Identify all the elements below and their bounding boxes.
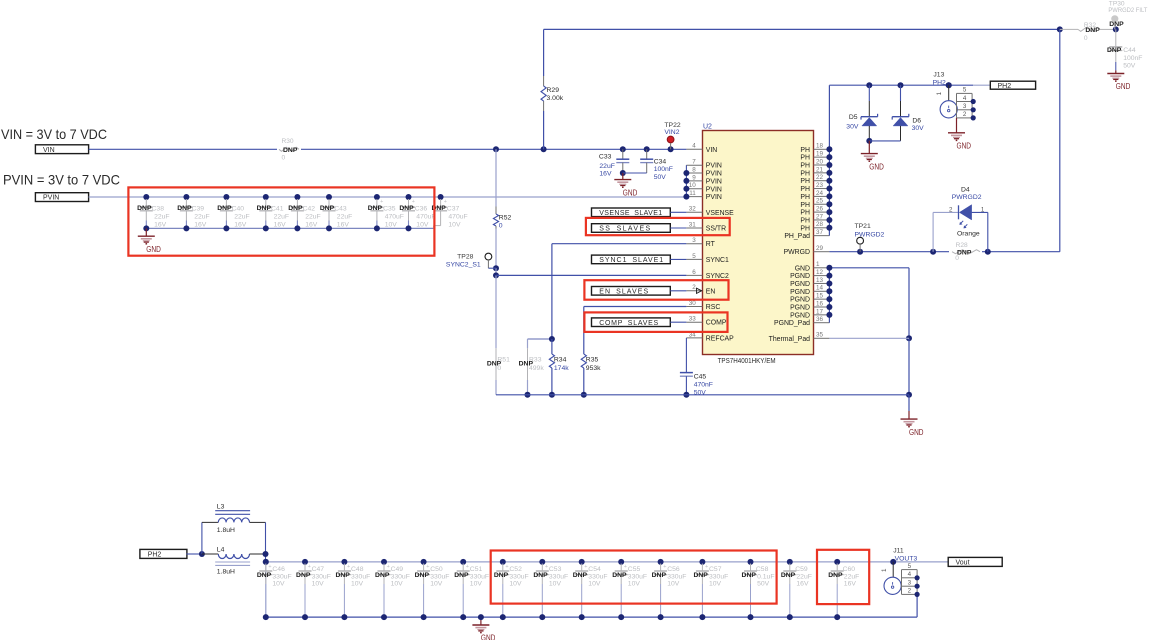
svg-text:PVIN: PVIN bbox=[706, 178, 722, 185]
pin 27 PH bbox=[800, 213, 829, 224]
wire PVIN cap bank ground bus bbox=[146, 221, 440, 229]
svg-text:SS_SLAVES: SS_SLAVES bbox=[599, 226, 650, 233]
svg-text:16V: 16V bbox=[337, 221, 350, 228]
svg-text:12: 12 bbox=[816, 269, 824, 276]
svg-text:10V: 10V bbox=[351, 580, 364, 587]
svg-text:16V: 16V bbox=[844, 580, 857, 587]
svg-text:330uF: 330uF bbox=[549, 573, 568, 580]
pin 33 COMP bbox=[686, 316, 726, 327]
capacitor C60 (DNP) bbox=[828, 559, 859, 620]
svg-text:13: 13 bbox=[816, 277, 824, 284]
svg-text:330uF: 330uF bbox=[628, 573, 647, 580]
svg-text:2: 2 bbox=[949, 207, 953, 214]
svg-text:C52: C52 bbox=[509, 566, 522, 573]
svg-text:C36: C36 bbox=[415, 205, 428, 212]
svg-text:9: 9 bbox=[692, 174, 696, 181]
svg-text:VSENSE_SLAVE1: VSENSE_SLAVE1 bbox=[599, 210, 662, 217]
svg-text:PVIN: PVIN bbox=[43, 195, 59, 202]
capacitor C37 (DNP) bbox=[431, 194, 467, 228]
svg-text:DNP: DNP bbox=[693, 572, 708, 579]
svg-text:C45: C45 bbox=[694, 373, 707, 380]
wire L3/L4 junction bbox=[263, 522, 269, 565]
pin 12 PGND bbox=[790, 269, 829, 280]
svg-text:+: + bbox=[387, 564, 390, 570]
annotation red box C52-C57 bbox=[491, 551, 777, 604]
svg-text:L3: L3 bbox=[217, 504, 225, 511]
capacitor C38 (DNP) bbox=[137, 194, 169, 231]
svg-text:Orange: Orange bbox=[957, 230, 980, 237]
svg-text:C53: C53 bbox=[549, 566, 562, 573]
svg-text:C56: C56 bbox=[667, 566, 680, 573]
svg-text:3: 3 bbox=[692, 237, 696, 244]
svg-text:25: 25 bbox=[816, 198, 824, 205]
wire SYNC2 horizontal bbox=[496, 274, 686, 276]
svg-text:Vout: Vout bbox=[956, 560, 970, 567]
svg-text:+: + bbox=[466, 564, 469, 570]
svg-text:SYNC2_S1: SYNC2_S1 bbox=[446, 261, 481, 268]
svg-text:DNP: DNP bbox=[137, 205, 152, 212]
svg-text:1: 1 bbox=[816, 261, 820, 268]
svg-text:+: + bbox=[545, 564, 548, 570]
capacitor C55 (DNP) bbox=[612, 559, 647, 620]
pin 3 RT bbox=[686, 237, 715, 248]
diode D6 30V bbox=[869, 85, 924, 141]
svg-text:22uF: 22uF bbox=[796, 573, 812, 580]
pin 26 PH bbox=[800, 206, 829, 217]
connector J13 PH2 bbox=[933, 72, 976, 121]
svg-text:29: 29 bbox=[816, 245, 824, 252]
svg-text:1: 1 bbox=[981, 207, 985, 214]
svg-text:GND: GND bbox=[623, 188, 638, 197]
svg-text:SYNC1: SYNC1 bbox=[706, 257, 729, 264]
svg-text:330uF: 330uF bbox=[709, 573, 728, 580]
svg-text:PH: PH bbox=[800, 178, 810, 185]
test point TP30 PWRGD2 FILT (DNP) bbox=[1108, 1, 1147, 30]
svg-text:C55: C55 bbox=[628, 566, 641, 573]
svg-text:VIN2: VIN2 bbox=[664, 129, 679, 136]
svg-text:C51: C51 bbox=[470, 566, 483, 573]
capacitor C36 (DNP) bbox=[399, 194, 435, 231]
ground GND (main bus) bbox=[901, 411, 924, 437]
svg-text:PH: PH bbox=[800, 163, 810, 170]
net label Vout bbox=[948, 557, 1002, 566]
pin 31 SS/TR bbox=[686, 221, 726, 232]
wire PH net bus bbox=[826, 85, 832, 235]
resistor R32 (DNP) bbox=[1060, 22, 1119, 42]
svg-text:3: 3 bbox=[908, 579, 912, 586]
resistor R35 bbox=[581, 354, 601, 398]
svg-text:330uF: 330uF bbox=[312, 573, 331, 580]
svg-text:COMP_SLAVES: COMP_SLAVES bbox=[599, 320, 658, 327]
resistor R34 bbox=[549, 339, 569, 398]
svg-text:GND: GND bbox=[957, 142, 972, 151]
pin 6 SYNC2 bbox=[686, 269, 729, 280]
pin 8 PVIN bbox=[686, 166, 722, 177]
annotation red box SS_SLAVES bbox=[586, 218, 730, 235]
wire analog ground bus bbox=[496, 394, 909, 396]
svg-text:C43: C43 bbox=[334, 205, 347, 212]
svg-text:16V: 16V bbox=[274, 221, 287, 228]
svg-text:330uF: 330uF bbox=[391, 573, 410, 580]
capacitor C42 (DNP) bbox=[288, 194, 320, 231]
svg-text:DNP: DNP bbox=[612, 572, 627, 579]
test point TP28 SYNC2_S1 bbox=[446, 253, 496, 268]
pin 5 SYNC1 bbox=[686, 253, 729, 264]
svg-text:C47: C47 bbox=[312, 566, 325, 573]
svg-text:10V: 10V bbox=[272, 580, 285, 587]
net label VSENSE_SLAVE1 bbox=[592, 208, 687, 217]
capacitor C53 (DNP) bbox=[533, 559, 568, 620]
svg-text:4: 4 bbox=[692, 143, 696, 150]
wire PH2 to inductors bbox=[186, 522, 205, 557]
pin 14 PGND bbox=[790, 285, 829, 296]
svg-text:16V: 16V bbox=[194, 221, 207, 228]
svg-text:20: 20 bbox=[816, 158, 824, 165]
inductor L3 1.8uH bbox=[202, 504, 266, 534]
capacitor C51 (DNP) bbox=[454, 559, 489, 620]
resistor R28 (DNP) bbox=[952, 242, 980, 262]
pin 15 PGND bbox=[790, 293, 829, 304]
svg-text:100nF: 100nF bbox=[654, 166, 673, 173]
svg-text:C33: C33 bbox=[599, 154, 612, 161]
svg-text:DNP: DNP bbox=[257, 572, 272, 579]
svg-text:28: 28 bbox=[816, 221, 824, 228]
svg-text:22uF: 22uF bbox=[194, 213, 210, 220]
svg-text:174k: 174k bbox=[554, 365, 569, 372]
net label PH2 (top right) bbox=[990, 81, 1035, 90]
annotation red box C60 bbox=[817, 550, 869, 604]
svg-text:R35: R35 bbox=[586, 356, 599, 363]
wire PVIN pin bus bbox=[683, 165, 689, 199]
svg-text:TPS7H4001HKY/EM: TPS7H4001HKY/EM bbox=[718, 358, 776, 365]
svg-text:14: 14 bbox=[816, 285, 824, 292]
svg-text:37: 37 bbox=[816, 229, 824, 236]
svg-text:+: + bbox=[705, 564, 708, 570]
svg-text:+: + bbox=[426, 564, 429, 570]
svg-text:470nF: 470nF bbox=[694, 382, 713, 389]
svg-text:19: 19 bbox=[816, 151, 824, 158]
svg-text:PH: PH bbox=[800, 170, 810, 177]
svg-text:30: 30 bbox=[689, 300, 697, 307]
svg-text:PH: PH bbox=[800, 202, 810, 209]
svg-text:SYNC2: SYNC2 bbox=[706, 273, 729, 280]
svg-text:R30: R30 bbox=[282, 138, 294, 145]
svg-text:DNP: DNP bbox=[1109, 21, 1124, 28]
svg-text:4: 4 bbox=[908, 571, 912, 578]
svg-text:0: 0 bbox=[1084, 35, 1088, 42]
svg-text:22uF: 22uF bbox=[599, 163, 615, 170]
diode D5 30V bbox=[846, 85, 877, 144]
svg-text:11: 11 bbox=[689, 190, 696, 197]
annotation red box PVIN caps bbox=[128, 187, 434, 255]
svg-text:C44: C44 bbox=[1123, 47, 1136, 54]
svg-text:36: 36 bbox=[816, 316, 824, 323]
svg-text:2: 2 bbox=[963, 111, 967, 118]
svg-text:1.8uH: 1.8uH bbox=[217, 527, 235, 534]
svg-text:DNP: DNP bbox=[1085, 27, 1100, 34]
svg-text:16V: 16V bbox=[234, 221, 247, 228]
svg-text:SS/TR: SS/TR bbox=[706, 226, 726, 233]
pin 19 PH bbox=[800, 151, 829, 162]
svg-text:100nF: 100nF bbox=[1123, 55, 1142, 62]
svg-text:R29: R29 bbox=[547, 87, 560, 94]
svg-text:22: 22 bbox=[816, 174, 824, 181]
svg-text:COMP: COMP bbox=[706, 320, 727, 327]
wire PH net top bbox=[829, 82, 990, 88]
wire GND pin net bbox=[829, 268, 912, 411]
pin 7 PVIN bbox=[686, 159, 722, 170]
svg-text:2: 2 bbox=[692, 284, 696, 291]
svg-text:C38: C38 bbox=[152, 205, 165, 212]
wire PGND bus bbox=[826, 265, 832, 323]
svg-text:16: 16 bbox=[816, 300, 824, 307]
svg-text:R34: R34 bbox=[554, 356, 567, 363]
pin 35 Thermal_Pad bbox=[769, 332, 830, 343]
svg-text:DNP: DNP bbox=[781, 572, 796, 579]
svg-text:DNP: DNP bbox=[375, 572, 390, 579]
svg-text:PGND: PGND bbox=[790, 297, 810, 304]
svg-text:C42: C42 bbox=[303, 205, 316, 212]
pin 30 RSC bbox=[686, 300, 720, 311]
wire PH top net bbox=[544, 26, 1063, 149]
svg-text:PH2: PH2 bbox=[148, 552, 162, 559]
svg-text:33: 33 bbox=[689, 316, 697, 323]
svg-text:10V: 10V bbox=[448, 221, 461, 228]
svg-text:6: 6 bbox=[692, 269, 696, 276]
svg-text:953k: 953k bbox=[586, 365, 601, 372]
svg-text:DNP: DNP bbox=[828, 572, 843, 579]
svg-text:C54: C54 bbox=[588, 566, 601, 573]
capacitor C41 (DNP) bbox=[257, 194, 289, 231]
svg-text:C46: C46 bbox=[272, 566, 285, 573]
svg-text:470uF: 470uF bbox=[448, 213, 467, 220]
svg-text:PGND: PGND bbox=[790, 281, 810, 288]
svg-text:L4: L4 bbox=[217, 546, 225, 553]
svg-text:EN_SLAVES: EN_SLAVES bbox=[599, 288, 648, 295]
svg-text:PVIN: PVIN bbox=[706, 194, 722, 201]
svg-text:R28: R28 bbox=[956, 242, 968, 249]
svg-text:C35: C35 bbox=[383, 205, 396, 212]
wire SYNC2 net vertical bbox=[493, 149, 499, 394]
svg-text:D6: D6 bbox=[912, 117, 921, 124]
svg-text:PH: PH bbox=[800, 186, 810, 193]
svg-text:330uF: 330uF bbox=[509, 573, 528, 580]
svg-text:DNP: DNP bbox=[533, 572, 548, 579]
pin 37 PH_Pad bbox=[784, 229, 829, 240]
svg-text:1.8uH: 1.8uH bbox=[217, 569, 235, 576]
svg-text:16V: 16V bbox=[599, 171, 612, 178]
pin 10 PVIN bbox=[686, 182, 722, 193]
svg-text:DNP: DNP bbox=[573, 572, 588, 579]
capacitor C54 (DNP) bbox=[573, 559, 608, 620]
pin 13 PGND bbox=[790, 277, 829, 288]
svg-text:VOUT3: VOUT3 bbox=[895, 555, 918, 562]
svg-text:10V: 10V bbox=[667, 580, 680, 587]
capacitor C57 (DNP) bbox=[693, 559, 728, 620]
svg-text:U2: U2 bbox=[703, 124, 712, 131]
svg-text:3: 3 bbox=[963, 103, 967, 110]
svg-text:330uF: 330uF bbox=[272, 573, 291, 580]
svg-text:21: 21 bbox=[816, 166, 824, 173]
svg-text:10V: 10V bbox=[588, 580, 601, 587]
svg-text:0.1uF: 0.1uF bbox=[757, 573, 774, 580]
svg-text:0: 0 bbox=[282, 154, 286, 161]
pin 22 PH bbox=[800, 174, 829, 185]
svg-text:10V: 10V bbox=[470, 580, 483, 587]
svg-text:PH2: PH2 bbox=[933, 79, 946, 86]
svg-text:30V: 30V bbox=[912, 125, 925, 132]
svg-text:330uF: 330uF bbox=[470, 573, 489, 580]
LED D4 PWRGD2 Orange bbox=[933, 187, 988, 252]
svg-text:50V: 50V bbox=[654, 174, 667, 181]
capacitor C43 (DNP) bbox=[320, 194, 352, 231]
svg-text:7: 7 bbox=[692, 159, 696, 166]
svg-text:C39: C39 bbox=[192, 205, 205, 212]
svg-text:PH: PH bbox=[800, 210, 810, 217]
pin 24 PH bbox=[800, 190, 829, 201]
net label SS_SLAVES bbox=[592, 224, 687, 233]
svg-text:PGND: PGND bbox=[790, 312, 810, 319]
svg-text:PVIN: PVIN bbox=[706, 163, 722, 170]
pin 20 PH bbox=[800, 158, 829, 169]
svg-text:10: 10 bbox=[689, 182, 697, 189]
svg-text:22uF: 22uF bbox=[305, 213, 321, 220]
svg-text:RT: RT bbox=[706, 241, 716, 248]
svg-text:DNP: DNP bbox=[957, 249, 972, 256]
svg-text:DNP: DNP bbox=[335, 572, 350, 579]
IC U2 TPS7H4001HKY/EM bbox=[703, 124, 814, 366]
capacitor C39 (DNP) bbox=[177, 194, 209, 231]
svg-text:+: + bbox=[584, 564, 587, 570]
svg-text:PGND: PGND bbox=[790, 289, 810, 296]
svg-text:22uF: 22uF bbox=[337, 213, 353, 220]
svg-text:VSENSE: VSENSE bbox=[706, 210, 734, 217]
resistor R30 (DNP) bbox=[279, 138, 299, 161]
svg-text:PH: PH bbox=[800, 217, 810, 224]
svg-text:DNP: DNP bbox=[296, 572, 311, 579]
net label EN_SLAVES bbox=[592, 287, 687, 296]
svg-text:5: 5 bbox=[692, 253, 696, 260]
capacitor C52 (DNP) bbox=[494, 559, 529, 620]
wire PWRGD net bbox=[829, 29, 1059, 254]
net label VIN bbox=[35, 145, 88, 154]
svg-text:C40: C40 bbox=[232, 205, 245, 212]
svg-text:10V: 10V bbox=[549, 580, 562, 587]
capacitor C50 (DNP) bbox=[415, 559, 450, 620]
svg-text:C59: C59 bbox=[795, 566, 808, 573]
connector J11 VOUT3 bbox=[881, 547, 920, 597]
svg-text:DNP: DNP bbox=[494, 572, 509, 579]
svg-text:1: 1 bbox=[881, 568, 888, 572]
svg-text:C48: C48 bbox=[351, 566, 364, 573]
pin 36 PGND_Pad bbox=[774, 316, 829, 327]
net label COMP_SLAVES bbox=[592, 318, 687, 327]
svg-text:DNP: DNP bbox=[399, 205, 414, 212]
svg-text:PVIN: PVIN bbox=[706, 186, 722, 193]
svg-text:DNP: DNP bbox=[368, 205, 383, 212]
svg-text:+: + bbox=[347, 564, 350, 570]
capacitor C40 (DNP) bbox=[217, 194, 249, 231]
svg-text:4: 4 bbox=[963, 95, 967, 102]
annotation red box EN_SLAVES bbox=[584, 280, 728, 300]
wire Thermal_Pad net bbox=[829, 337, 909, 339]
svg-text:1: 1 bbox=[936, 91, 943, 95]
ground GND (C33/C34) bbox=[614, 173, 637, 197]
svg-text:16V: 16V bbox=[796, 580, 809, 587]
capacitor C59 (DNP) bbox=[781, 559, 812, 620]
svg-text:GND: GND bbox=[146, 245, 161, 254]
svg-text:330uF: 330uF bbox=[430, 573, 449, 580]
svg-text:GND: GND bbox=[481, 634, 496, 640]
capacitor C56 (DNP) bbox=[652, 559, 687, 620]
svg-text:GND: GND bbox=[909, 428, 924, 437]
svg-text:D4: D4 bbox=[961, 187, 970, 194]
capacitor C44 (DNP) bbox=[1107, 29, 1143, 70]
svg-text:J11: J11 bbox=[893, 547, 904, 554]
capacitor C45 bbox=[680, 338, 713, 398]
svg-text:VIN: VIN bbox=[43, 147, 55, 154]
svg-text:0: 0 bbox=[499, 222, 503, 229]
svg-text:470uF: 470uF bbox=[385, 213, 404, 220]
svg-text:PVIN: PVIN bbox=[706, 171, 722, 178]
svg-text:+: + bbox=[624, 564, 627, 570]
svg-text:C37: C37 bbox=[447, 205, 460, 212]
svg-text:PH2: PH2 bbox=[998, 83, 1012, 90]
svg-text:50V: 50V bbox=[757, 580, 770, 587]
pin 18 PH bbox=[800, 143, 829, 154]
svg-text:22uF: 22uF bbox=[844, 573, 860, 580]
ground GND (output bank) bbox=[472, 614, 495, 640]
capacitor C49 (DNP) bbox=[375, 559, 410, 620]
svg-text:EN: EN bbox=[706, 288, 716, 295]
resistor R29 bbox=[541, 86, 564, 102]
ground GND (PVIN cap bank) bbox=[138, 228, 161, 254]
svg-text:10V: 10V bbox=[509, 580, 522, 587]
pin 28 PH bbox=[800, 221, 829, 232]
svg-text:REFCAP: REFCAP bbox=[706, 335, 734, 342]
svg-text:RSC: RSC bbox=[706, 304, 721, 311]
test point TP22 VIN2 bbox=[664, 122, 680, 150]
pin 23 PH bbox=[800, 182, 829, 193]
wire RSC net bbox=[584, 307, 687, 355]
svg-text:C50: C50 bbox=[430, 566, 443, 573]
net label PH2 (bottom left) bbox=[140, 549, 187, 558]
resistor R52 bbox=[493, 207, 511, 230]
svg-text:PWRGD: PWRGD bbox=[784, 249, 810, 256]
text VIN header bbox=[1, 127, 107, 142]
pin 17 PGND bbox=[790, 308, 829, 319]
svg-text:GND: GND bbox=[869, 162, 884, 171]
test point TP21 PWRGD2 bbox=[855, 223, 885, 252]
svg-text:TP22: TP22 bbox=[664, 122, 680, 129]
svg-text:27: 27 bbox=[816, 213, 824, 220]
svg-text:DNP: DNP bbox=[742, 572, 757, 579]
svg-text:DNP: DNP bbox=[283, 147, 298, 154]
capacitor C47 (DNP) bbox=[296, 559, 331, 620]
svg-text:DNP: DNP bbox=[320, 205, 335, 212]
svg-text:470uF: 470uF bbox=[416, 213, 435, 220]
svg-text:10V: 10V bbox=[312, 580, 325, 587]
svg-text:2: 2 bbox=[908, 588, 912, 595]
svg-text:22uF: 22uF bbox=[234, 213, 250, 220]
svg-text:PGND: PGND bbox=[790, 273, 810, 280]
svg-text:GND: GND bbox=[1116, 82, 1131, 91]
svg-text:8: 8 bbox=[692, 166, 696, 173]
pin 21 PH bbox=[800, 166, 829, 177]
svg-text:35: 35 bbox=[816, 332, 824, 339]
svg-text:32: 32 bbox=[689, 206, 697, 213]
resistor R33 (DNP) bbox=[519, 339, 545, 398]
